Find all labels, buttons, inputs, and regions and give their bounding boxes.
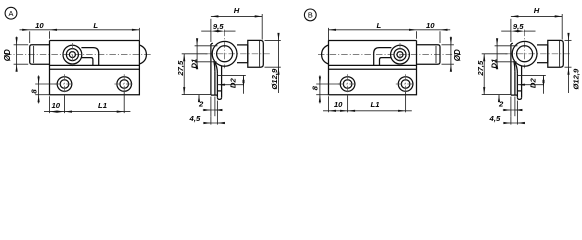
clamp ring side A	[212, 41, 237, 66]
ext line pin face A	[29, 31, 31, 43]
plunger knob side B	[548, 40, 564, 67]
foot bottom side A	[211, 94, 218, 96]
arrows L1 bottom B	[348, 110, 356, 112]
dim line top B	[329, 29, 451, 31]
centerline plunger axis side B	[505, 53, 570, 55]
bracket stem inner side A	[214, 71, 216, 95]
arrows 10 bottom A	[50, 111, 58, 113]
svg-text:2: 2	[198, 100, 204, 109]
arrow at pin face B	[440, 29, 448, 31]
dim O12,9 side B	[565, 39, 572, 41]
ring vertical centerline side A	[224, 30, 226, 69]
centerline pin axis A	[5, 54, 151, 56]
svg-text:8: 8	[311, 85, 320, 90]
svg-text:27,5: 27,5	[476, 60, 485, 77]
svg-text:L1: L1	[98, 101, 107, 110]
dim 4,5 side A	[210, 116, 212, 124]
elbow pipe A	[81, 48, 98, 66]
svg-text:L: L	[376, 21, 381, 30]
svg-text:ØD: ØD	[453, 49, 462, 61]
clamp ring side B	[512, 41, 537, 66]
dim line bottom B	[323, 110, 412, 112]
svg-text:D1: D1	[490, 59, 499, 69]
ext plate left bottom B	[328, 96, 330, 112]
svg-text:27,5: 27,5	[176, 60, 185, 77]
svg-text:L1: L1	[371, 100, 380, 109]
elbow pipe B	[374, 48, 392, 66]
ext hole2 bottom B	[405, 92, 407, 113]
bracket face side B	[510, 44, 512, 95]
dim 27,5 side B	[482, 53, 508, 55]
svg-text:Ø12,9: Ø12,9	[270, 68, 279, 90]
svg-text:10: 10	[52, 101, 61, 110]
grub screw boss B	[391, 45, 410, 64]
svg-text:D2: D2	[229, 78, 238, 89]
pin dome end B (left)	[322, 45, 329, 64]
counterbored hole 2 B	[398, 77, 413, 92]
dim line bottom A	[44, 111, 130, 113]
svg-text:A: A	[9, 9, 14, 18]
plate top edge A	[50, 68, 140, 70]
plunger neck side B	[537, 44, 548, 46]
dim H side A	[211, 15, 262, 17]
body B (housing block)	[329, 41, 417, 95]
label A (circled)	[5, 7, 17, 19]
counterbored hole 1 A	[57, 77, 72, 92]
thrust pin down side B	[516, 73, 518, 97]
svg-text:10: 10	[426, 21, 435, 30]
counterbored hole 1 B	[340, 77, 355, 92]
arrow L right A	[132, 29, 140, 31]
svg-text:Ø12,9: Ø12,9	[571, 68, 580, 90]
arrow L right B	[409, 29, 417, 31]
ext plate left bottom A	[49, 96, 51, 113]
foot bottom side B	[511, 94, 518, 96]
plate top edge B	[329, 68, 417, 70]
housing bottom edge A	[50, 64, 140, 66]
svg-text:9,5: 9,5	[213, 22, 224, 31]
pin B (protruding right)	[417, 45, 441, 64]
dim 2 side B	[510, 97, 512, 117]
svg-text:9,5: 9,5	[513, 22, 524, 31]
svg-text:10: 10	[35, 21, 44, 30]
svg-text:B: B	[308, 11, 313, 20]
arrow at pin face A	[22, 29, 30, 31]
dim D1 side A	[195, 45, 218, 47]
grub screw boss A	[63, 45, 82, 64]
svg-text:4,5: 4,5	[489, 114, 501, 123]
svg-text:D1: D1	[190, 59, 199, 69]
dim H side B	[511, 15, 562, 17]
arrows 10 bottom B	[329, 110, 337, 112]
dim OD B	[442, 44, 454, 46]
svg-text:4,5: 4,5	[189, 114, 201, 123]
plunger knob side A	[248, 40, 263, 67]
svg-text:D2: D2	[529, 78, 538, 89]
svg-text:ØD: ØD	[3, 49, 12, 61]
pin A (protruding left)	[30, 45, 50, 64]
dim 9,5 side B	[501, 30, 511, 32]
ext line body left top B	[328, 28, 330, 41]
body A (housing block)	[50, 41, 140, 95]
svg-text:8: 8	[29, 89, 38, 94]
arrow L left B	[329, 29, 337, 31]
pin dome end A (right)	[139, 45, 146, 64]
centerline plunger axis side A	[205, 53, 270, 55]
counterbored hole 2 A	[117, 77, 132, 92]
dim D1 side B	[495, 45, 518, 47]
housing bottom edge B	[329, 64, 417, 66]
ext line body left top A	[49, 31, 51, 38]
dim OD A	[14, 44, 29, 46]
dim D2 side B	[518, 74, 546, 76]
dim O12,9 side A	[265, 39, 281, 41]
plunger neck side A	[237, 44, 248, 46]
ext line body right top A	[138, 28, 140, 41]
dim D2 side A	[218, 74, 246, 76]
label B (circled)	[304, 9, 316, 21]
dim 27,5 side A	[182, 53, 208, 55]
svg-text:H: H	[534, 6, 540, 15]
ext line body right top B	[416, 31, 418, 38]
dim 4,5 side B	[510, 116, 512, 124]
ring vertical centerline side B	[524, 30, 526, 69]
centerline pin axis B	[318, 54, 461, 56]
dim 8 A	[35, 83, 57, 85]
ext hole2 bottom A	[123, 92, 125, 113]
ext line pin face B	[439, 31, 441, 43]
dim 8 B	[316, 83, 340, 85]
ext hole1 bottom B	[347, 96, 349, 113]
ext hole1 bottom A	[64, 96, 66, 114]
svg-text:H: H	[234, 6, 240, 15]
svg-text:L: L	[93, 21, 98, 30]
bracket face side A	[210, 44, 212, 95]
dim line top A	[20, 29, 140, 31]
bracket stem inner side B	[514, 71, 516, 95]
arrows L1 bottom A	[65, 111, 73, 113]
dim 2 side A	[210, 97, 212, 117]
svg-text:2: 2	[498, 100, 504, 109]
thrust pin down side A	[216, 73, 218, 97]
svg-text:10: 10	[334, 100, 343, 109]
arrow L left A	[50, 29, 58, 31]
dim 9,5 side A	[201, 30, 211, 32]
